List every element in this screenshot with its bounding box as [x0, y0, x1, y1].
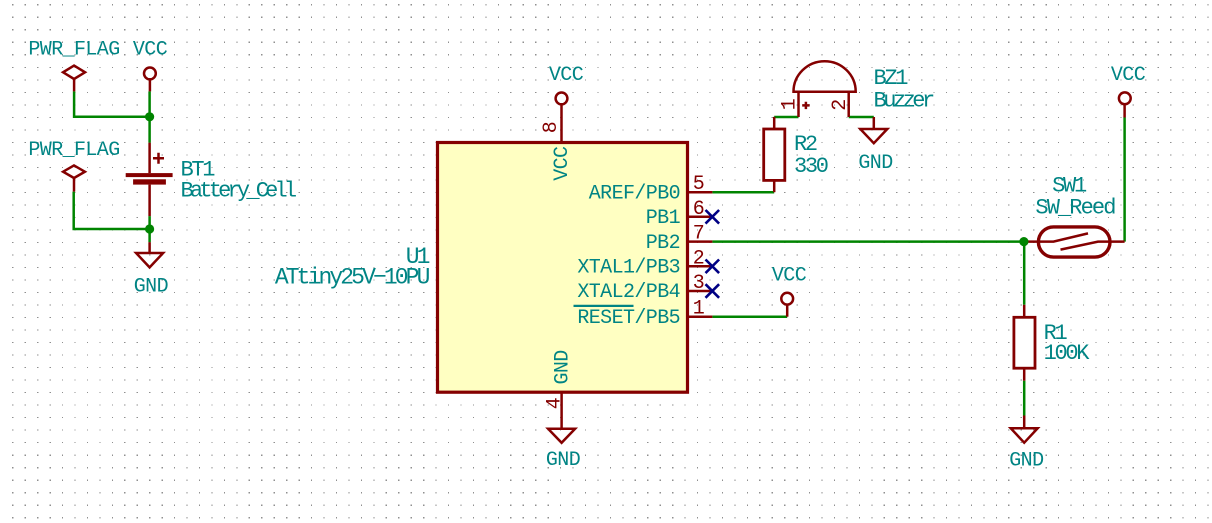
svg-text:ATtiny25V−10PU: ATtiny25V−10PU	[275, 265, 430, 291]
svg-text:2: 2	[829, 99, 852, 110]
svg-text:R2: R2	[794, 132, 817, 157]
svg-text:RESET/PB5: RESET/PB5	[577, 307, 680, 330]
svg-text:PWR_FLAG: PWR_FLAG	[28, 139, 119, 162]
svg-text:330: 330	[794, 154, 828, 179]
svg-text:PB2: PB2	[646, 232, 680, 255]
svg-text:6: 6	[693, 198, 704, 221]
svg-text:VCC: VCC	[772, 264, 807, 287]
svg-text:XTAL2/PB4: XTAL2/PB4	[577, 281, 680, 304]
svg-text:XTAL1/PB3: XTAL1/PB3	[577, 257, 680, 280]
svg-text:Buzzer: Buzzer	[874, 89, 935, 114]
svg-text:100K: 100K	[1044, 341, 1091, 366]
svg-text:PWR_FLAG: PWR_FLAG	[28, 38, 119, 61]
svg-text:2: 2	[693, 247, 704, 270]
svg-text:GND: GND	[546, 449, 580, 472]
svg-text:5: 5	[693, 173, 704, 196]
svg-text:GND: GND	[134, 276, 168, 299]
svg-text:BZ1: BZ1	[874, 66, 909, 91]
svg-text:VCC: VCC	[549, 64, 584, 87]
svg-text:PB1: PB1	[646, 207, 681, 230]
svg-text:GND: GND	[1009, 449, 1043, 472]
svg-text:3: 3	[693, 272, 704, 295]
svg-text:Battery_Cell: Battery_Cell	[181, 179, 296, 204]
svg-text:4: 4	[543, 398, 566, 409]
svg-text:GND: GND	[552, 350, 575, 384]
svg-text:VCC: VCC	[1111, 64, 1146, 87]
svg-text:GND: GND	[858, 152, 892, 175]
svg-text:VCC: VCC	[551, 146, 574, 181]
svg-text:VCC: VCC	[133, 38, 168, 61]
svg-text:AREF/PB0: AREF/PB0	[589, 182, 680, 205]
svg-text:SW_Reed: SW_Reed	[1035, 196, 1115, 221]
svg-text:1: 1	[693, 298, 705, 321]
svg-text:7: 7	[693, 223, 704, 246]
svg-text:8: 8	[540, 122, 563, 133]
svg-text:1: 1	[779, 98, 802, 110]
